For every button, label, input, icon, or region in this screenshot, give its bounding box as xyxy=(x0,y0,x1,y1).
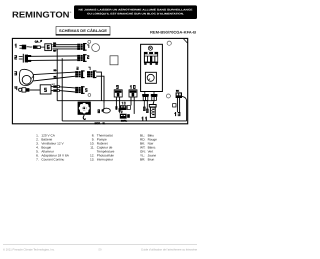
title box xyxy=(56,27,110,35)
connector pair 7b xyxy=(87,67,96,78)
svg-text:11.: 11. xyxy=(90,146,94,150)
fan pigtail xyxy=(83,115,85,120)
frame corner chamfer xyxy=(184,39,188,43)
svg-text:Courant Continu: Courant Continu xyxy=(41,158,64,162)
fan scroll icon xyxy=(19,69,33,85)
diagram frame xyxy=(12,38,187,123)
connector pair 3 xyxy=(75,67,84,78)
hole small top xyxy=(88,40,91,43)
small connector 12a xyxy=(119,111,130,123)
legend column 3 xyxy=(140,133,157,161)
inline connector on plug cord xyxy=(33,45,45,48)
connector pair 5 xyxy=(75,86,87,94)
svg-text:CA: CA xyxy=(35,40,39,43)
temperature sensor 11 xyxy=(141,100,148,120)
svg-text:REM-B50/70CGA-KFA-B: REM-B50/70CGA-KFA-B xyxy=(150,31,196,35)
ignitor box 5 xyxy=(40,83,55,94)
adapter box 6 xyxy=(45,44,52,51)
wire battery to connector 2 xyxy=(31,56,77,61)
connector pair B under box xyxy=(151,92,158,101)
footer text xyxy=(3,249,197,252)
switch 13 connector xyxy=(176,90,182,98)
control box xyxy=(141,44,163,91)
svg-text:BK/YL: BK/YL xyxy=(95,122,102,125)
svg-text:SCHÉMAS DE CÂBLAGE: SCHÉMAS DE CÂBLAGE xyxy=(59,28,108,33)
junction square xyxy=(110,56,118,65)
wires below connector 9 xyxy=(115,97,120,112)
wire labels RD BK WT xyxy=(53,42,57,52)
bottom bus wire xyxy=(62,120,186,122)
svg-text:7.: 7. xyxy=(36,158,39,162)
svg-text:Guide d'utilisation de l'aérot: Guide d'utilisation de l'aérotherme au k… xyxy=(141,249,198,252)
inline connector on ignitor wires xyxy=(51,85,59,91)
wire adapter to connector 7 (3 wires) xyxy=(52,45,77,49)
legend column 2 xyxy=(90,133,115,161)
connector pair 2 xyxy=(77,54,89,62)
svg-text:Interrupteur: Interrupteur xyxy=(97,158,113,162)
wire from 7b turning down 2 xyxy=(96,76,104,103)
connector pair 9 xyxy=(114,85,122,97)
spark plug xyxy=(19,88,41,92)
svg-text:13.: 13. xyxy=(90,158,94,162)
svg-text:REMINGTON: REMINGTON xyxy=(12,10,70,20)
svg-text:BR:: BR: xyxy=(140,158,145,162)
wire 13 curve to edge xyxy=(182,96,187,121)
wires below 13 xyxy=(173,98,181,116)
wire fan to connector 3 xyxy=(33,72,75,81)
bus wire vertical B xyxy=(61,58,63,121)
hole big xyxy=(92,44,100,52)
hole near connector 5 xyxy=(88,94,91,97)
wire ignitor to connector 5 xyxy=(59,87,75,92)
svg-text:© 2021 Pinnacle Climate Techno: © 2021 Pinnacle Climate Technologies, In… xyxy=(3,249,55,252)
node 3 label xyxy=(14,71,17,75)
node 1 label xyxy=(15,44,17,48)
hole top right xyxy=(167,41,171,45)
footer rule xyxy=(3,244,197,246)
battery B1 xyxy=(19,54,31,63)
svg-text:Brun: Brun xyxy=(148,158,155,162)
svg-text:BK/YL: BK/YL xyxy=(121,120,128,123)
node 2 label xyxy=(14,55,17,59)
node 4 label xyxy=(15,86,18,90)
legend column 1 xyxy=(36,133,70,161)
connector pair 7 xyxy=(77,43,89,51)
svg-text:OU LORSQU'IL EST BRANCHÉ SUR U: OU LORSQU'IL EST BRANCHÉ SUR UN BLOC D'A… xyxy=(87,11,184,15)
bus wire vertical A xyxy=(56,49,58,101)
plug P1 (120V) xyxy=(19,45,32,50)
hole bottom mid xyxy=(166,94,170,98)
indicator circle-x xyxy=(148,46,152,50)
wire from 7b turning down xyxy=(96,72,101,101)
fan unit 12V xyxy=(78,102,91,120)
svg-text:50: 50 xyxy=(99,249,102,252)
horizontal bus wire mid xyxy=(57,100,152,102)
terminal strip xyxy=(144,52,158,65)
small connector 10a xyxy=(120,102,131,110)
buzzer xyxy=(145,72,156,83)
svg-text:NE JAMAIS LAISSER UN AÉROTHERM: NE JAMAIS LAISSER UN AÉROTHERME ALLUMÉ S… xyxy=(79,7,193,11)
connector pair A under box xyxy=(142,92,149,101)
photocell 12 xyxy=(149,100,156,117)
label CA with arrow xyxy=(35,40,42,43)
warning black box xyxy=(74,5,197,19)
connector pair 10 xyxy=(129,85,137,97)
wires below connector 10 xyxy=(131,97,134,114)
thermostat 8 xyxy=(98,104,111,114)
